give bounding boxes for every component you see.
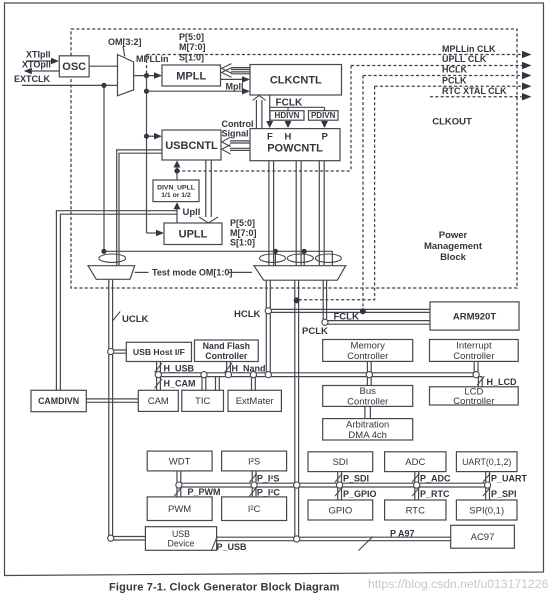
block ARM920T xyxy=(430,302,519,330)
svg-text:MPLLin CLK: MPLLin CLK xyxy=(442,44,496,54)
svg-text:HDIVN: HDIVN xyxy=(275,111,300,120)
wire net PMS ctrl shafts 1 xyxy=(231,68,250,70)
arrowhead RTC XTAL CLK xyxy=(522,93,532,101)
wire net UPLL CLK lower run (dashed) xyxy=(177,170,351,172)
block I2C xyxy=(222,497,287,521)
arrowhead PCLK out xyxy=(522,83,532,91)
block SPI xyxy=(456,500,517,520)
svg-text:Upll: Upll xyxy=(183,207,201,218)
arrowhead Upll into USBCNTL xyxy=(174,161,181,168)
mux test-mode UCLK xyxy=(88,266,135,280)
arrowhead Mpll into CLKCNTL xyxy=(242,76,250,83)
slash mark UART-SPI down slash xyxy=(483,487,490,496)
svg-text:POWCNTL: POWCNTL xyxy=(267,143,323,155)
svg-text:XTIpll: XTIpll xyxy=(26,50,51,60)
block GPIO xyxy=(308,500,373,520)
slash mark H_LCD slash xyxy=(477,376,484,385)
svg-text:P_SPI: P_SPI xyxy=(491,489,517,499)
wire net POWCNTL to CLKCNTL shafts xyxy=(256,100,262,129)
wire net FCLK branch xyxy=(270,107,325,110)
node WDT-PWM node xyxy=(176,482,182,488)
svg-text:PDIVN: PDIVN xyxy=(311,111,336,120)
svg-text:P_I²S: P_I²S xyxy=(257,473,280,483)
wire net OSC to mux xyxy=(89,65,117,67)
svg-text:DMA 4ch: DMA 4ch xyxy=(348,430,387,441)
wire net FCLK col xyxy=(323,280,326,321)
svg-text:PWM: PWM xyxy=(168,504,191,515)
svg-text:MPLL: MPLL xyxy=(176,70,206,82)
wire net UART-SPI up stub xyxy=(486,472,490,484)
svg-text:DIVN_UPLL: DIVN_UPLL xyxy=(157,184,195,191)
svg-text:Mpll: Mpll xyxy=(226,82,244,92)
arrowhead XTOpll out xyxy=(24,68,32,74)
wire net MPLLin to UPLL xyxy=(147,232,161,234)
wire net EXTCLK down xyxy=(103,85,105,251)
svg-text:P_USB: P_USB xyxy=(217,542,248,552)
svg-text:RTC XTAL CLK: RTC XTAL CLK xyxy=(442,86,507,96)
node TIC node xyxy=(201,372,207,378)
wire net UCLK run xyxy=(56,211,177,391)
wire net Upll up xyxy=(176,165,178,181)
svg-text:FCLK: FCLK xyxy=(334,312,359,323)
wire net to ARM lower xyxy=(328,321,431,325)
node SDI-GPIO node xyxy=(337,482,343,488)
svg-text:M[7:0]: M[7:0] xyxy=(179,42,206,52)
block CAMDIVN xyxy=(31,390,86,411)
node HCLK node xyxy=(265,308,271,314)
slash mark H_USB slash xyxy=(155,363,162,372)
wire net MPLLin vertical xyxy=(146,76,148,233)
svg-text:P_PWM: P_PWM xyxy=(188,487,221,497)
arrowhead H into POWCNTL xyxy=(285,121,292,128)
wire net UCLK to USB device xyxy=(114,537,146,541)
svg-text:ARM920T: ARM920T xyxy=(453,311,496,322)
svg-text:OM[3:2]: OM[3:2] xyxy=(108,37,142,47)
arrowhead HCLK out xyxy=(522,72,532,79)
svg-text:UART(0,1,2): UART(0,1,2) xyxy=(462,457,511,467)
svg-text:Signal: Signal xyxy=(222,128,249,138)
block CAM xyxy=(138,390,178,411)
svg-text:H_CAM: H_CAM xyxy=(164,379,196,389)
wire net PCLK col xyxy=(295,280,299,537)
wire net MPLLin to CLKCNTL xyxy=(147,90,247,92)
svg-text:WDT: WDT xyxy=(169,456,191,467)
junction EXTCLK branch xyxy=(101,83,106,88)
svg-text:Nand Flash: Nand Flash xyxy=(203,341,250,351)
svg-text:EXTCLK: EXTCLK xyxy=(14,74,51,84)
svg-text:Arbitration: Arbitration xyxy=(346,419,389,430)
mux test-mode FCLK HCLK PCLK xyxy=(254,266,346,281)
wire net ADC-RTC up stub xyxy=(415,472,419,484)
test-mode pass gate ellipse left xyxy=(99,254,126,262)
svg-text:PCLK: PCLK xyxy=(302,326,328,337)
svg-text:S[1:0]: S[1:0] xyxy=(179,53,204,63)
slash mark SDI-GPIO up slash xyxy=(335,473,342,482)
slash mark P_USB slash xyxy=(212,536,218,550)
svg-text:H_LCD: H_LCD xyxy=(487,377,518,387)
block LCD Controller xyxy=(430,387,519,408)
svg-text:H: H xyxy=(285,132,292,143)
wire net RTC XTAL CLK (dashed) xyxy=(430,96,522,98)
test-mode pass gate ellipse F xyxy=(260,254,286,262)
wire net HCLK bus xyxy=(158,373,482,377)
arrowhead into CLKCNTL lower xyxy=(242,88,250,95)
wire net POWCNTL P pair xyxy=(319,161,324,266)
block UART xyxy=(456,452,517,472)
svg-text:P_I²C: P_I²C xyxy=(257,488,281,498)
wire net Bus ctrl stub xyxy=(367,377,371,386)
wire net CAMDIVN to CAM xyxy=(86,399,138,402)
block UPLL xyxy=(164,223,222,245)
block HDIVN xyxy=(270,111,304,121)
wire net USBCNTL to UPLL shafts xyxy=(206,160,212,217)
open arrowhead ctrl USBCNTL 1 xyxy=(222,137,231,146)
svg-text:CLKOUT: CLKOUT xyxy=(432,117,472,128)
wire net UART-SPI down stub xyxy=(486,487,490,500)
wire net PDIVN out xyxy=(324,120,326,123)
wire net HDIVN out xyxy=(287,120,289,123)
wire net PMS ctrl shafts 2 xyxy=(231,72,250,74)
wire net test mode label left xyxy=(135,271,149,273)
svg-text:https://blog.csdn.net/u0131712: https://blog.csdn.net/u013171226 xyxy=(368,577,548,591)
block MPLL xyxy=(162,65,221,86)
block DIVN_UPLL xyxy=(153,180,199,202)
slash mark I2S-I2C down slash xyxy=(249,487,256,496)
svg-text:PCLK: PCLK xyxy=(442,75,467,85)
block ADC xyxy=(385,452,446,472)
block Bus Controller xyxy=(323,386,413,408)
wire net TIC stub 2 xyxy=(216,377,220,391)
svg-text:Controller: Controller xyxy=(205,351,248,361)
junction EXTCLK test branch xyxy=(101,249,106,254)
svg-text:HCLK: HCLK xyxy=(442,65,467,75)
wire net H_CAM stub xyxy=(157,377,161,391)
wire net PCLK out (dashed) xyxy=(375,85,522,87)
wire net UCLK to USB host xyxy=(114,350,127,353)
wire net XTOpll xyxy=(28,70,59,72)
wire net Mpll xyxy=(221,78,247,80)
wire net I2S-I2C down stub xyxy=(252,487,256,497)
svg-text:I²S: I²S xyxy=(248,456,260,467)
svg-text:RTC: RTC xyxy=(406,505,425,516)
block WDT xyxy=(147,451,212,471)
arrowhead MPLLin CLK xyxy=(522,51,532,58)
block USB Device xyxy=(145,527,216,551)
svg-text:Memory: Memory xyxy=(351,341,386,352)
wire net ExtMater stub xyxy=(252,377,256,391)
svg-text:H_USB: H_USB xyxy=(164,363,195,373)
arrowhead UPLL CLK xyxy=(522,62,532,69)
junction MPLLin junction xyxy=(144,73,149,78)
svg-text:Test mode OM[1:0]: Test mode OM[1:0] xyxy=(152,268,232,278)
wire net ctrl to USBCNTL shafts 2 xyxy=(230,148,250,150)
wire net Upll mid xyxy=(176,207,178,223)
svg-text:CLKCNTL: CLKCNTL xyxy=(270,75,322,87)
svg-text:M[7:0]: M[7:0] xyxy=(230,228,257,238)
slash mark UART-SPI up slash xyxy=(483,473,490,482)
svg-text:ExtMater: ExtMater xyxy=(236,396,274,407)
svg-text:UPLL: UPLL xyxy=(179,229,208,241)
svg-text:UPLL CLK: UPLL CLK xyxy=(442,54,487,64)
wire net P_A97 run xyxy=(300,537,451,541)
svg-text:HCLK: HCLK xyxy=(234,309,261,320)
wire net LCD drop xyxy=(478,373,482,387)
slash mark P_A97 slash xyxy=(359,537,373,551)
svg-text:AC97: AC97 xyxy=(471,532,495,543)
block Interrupt Controller xyxy=(430,340,519,363)
svg-text:SPI(0,1): SPI(0,1) xyxy=(469,505,504,516)
svg-text:Power: Power xyxy=(439,230,468,241)
svg-text:TIC: TIC xyxy=(195,396,210,407)
node PCLK bus join xyxy=(294,482,300,488)
svg-text:Bus: Bus xyxy=(360,386,377,397)
block USBCNTL xyxy=(162,130,221,160)
svg-text:I²C: I²C xyxy=(248,504,261,515)
arrowhead Upll into DIVN_UPLL xyxy=(174,202,181,209)
slash mark ADC-RTC down slash xyxy=(412,487,419,496)
wire net mux to MPLL xyxy=(134,75,159,77)
svg-text:CAM: CAM xyxy=(148,396,169,407)
svg-text:ADC: ADC xyxy=(405,457,425,468)
wire net POWCNTL F pair xyxy=(269,161,274,266)
wire net UPLL CLK (dashed) xyxy=(351,65,522,67)
wire net MPLLin CLK (dashed) xyxy=(147,54,522,56)
node Memory node xyxy=(366,372,372,378)
wire net PCLK bus xyxy=(179,483,490,487)
wire net H_Nand stub xyxy=(227,362,231,374)
slash mark ADC-RTC up slash xyxy=(412,473,419,482)
svg-text:P[5:0]: P[5:0] xyxy=(179,32,204,42)
node ExtMater node xyxy=(250,372,256,378)
svg-text:P A97: P A97 xyxy=(390,529,415,539)
slash mark WDT-PWM down slash xyxy=(174,487,181,496)
svg-text:P_RTC: P_RTC xyxy=(420,489,450,499)
svg-text:P: P xyxy=(322,132,329,143)
node H_USB node xyxy=(155,372,161,378)
wire net ctrl to USBCNTL shafts 1 xyxy=(230,141,250,143)
wire net MPLLin CLK tap (dashed) xyxy=(146,55,148,76)
node UCLK to USB host xyxy=(108,349,114,355)
svg-text:Device: Device xyxy=(168,538,195,548)
block AC97 xyxy=(451,525,515,548)
open arrowhead USBCNTL to UPLL xyxy=(199,217,218,223)
wire net SDI-GPIO up stub xyxy=(338,472,342,484)
junction MPLLin to USBCNTL xyxy=(144,134,149,139)
block Arbitration DMA xyxy=(323,419,413,441)
wire net to ARM upper xyxy=(271,309,430,312)
block USB Host I/F xyxy=(126,342,191,361)
wire net SDI-GPIO down stub xyxy=(338,487,342,500)
svg-text:1/1 or 1/2: 1/1 or 1/2 xyxy=(161,192,191,199)
test-mode pass gate ellipse P xyxy=(315,254,341,262)
junction test tap 2 xyxy=(302,249,307,254)
svg-text:P_ADC: P_ADC xyxy=(420,473,451,483)
svg-text:P_UART: P_UART xyxy=(491,473,528,483)
arrowhead P into POWCNTL xyxy=(321,121,328,128)
svg-text:Figure 7-1. Clock Generator Bl: Figure 7-1. Clock Generator Block Diagra… xyxy=(109,582,340,594)
block OSC xyxy=(59,56,89,77)
wire net HCLK col xyxy=(266,280,270,373)
svg-text:Block: Block xyxy=(440,252,467,263)
svg-text:H_Nand: H_Nand xyxy=(232,363,266,373)
wire net XTIpll xyxy=(26,60,56,62)
slash mark SDI-GPIO down slash xyxy=(335,487,342,496)
wire net UCLK col xyxy=(109,279,113,536)
open arrowhead PMS ctrl 2 xyxy=(222,68,232,78)
node FCLK node xyxy=(322,319,328,325)
wire net HCLK out (dashed) xyxy=(363,75,522,77)
arrowhead F into POWCNTL xyxy=(266,121,273,128)
arrowhead into MPLL xyxy=(154,72,162,79)
wire net WDT-PWM up stub xyxy=(177,471,181,483)
wire net test mode label right xyxy=(229,271,252,273)
junction MPLLin to CLKCNTL xyxy=(144,89,149,94)
wire net USBCNTL left pair xyxy=(117,150,162,266)
block SDI xyxy=(308,452,373,472)
slash mark H_CAM slash xyxy=(155,379,162,388)
svg-text:UCLK: UCLK xyxy=(122,314,149,325)
wire net Arbitration stub xyxy=(365,406,371,418)
block I2S xyxy=(222,451,287,471)
slash mark I2S-I2C up slash xyxy=(249,473,256,482)
wire net PCLK tap (dashed) xyxy=(299,86,375,299)
node UCLK to USB device xyxy=(108,535,114,541)
block PDIVN xyxy=(309,111,339,121)
wire net Memory stub xyxy=(367,361,371,373)
svg-text:OSC: OSC xyxy=(62,61,86,73)
wire net HCLK tap (dashed) xyxy=(362,76,364,310)
svg-text:USBCNTL: USBCNTL xyxy=(165,140,218,152)
svg-text:Controller: Controller xyxy=(347,397,388,408)
junction Upll tap xyxy=(174,168,179,173)
svg-text:USB: USB xyxy=(172,529,190,539)
svg-text:Controller: Controller xyxy=(453,351,494,362)
wire net I2S-I2C up stub xyxy=(252,471,256,483)
node Interrupt node xyxy=(473,372,479,378)
svg-text:XTOpll: XTOpll xyxy=(22,59,51,69)
block PWM xyxy=(147,497,212,521)
node P_A97 node xyxy=(294,536,300,542)
block Nand Flash Controller xyxy=(195,340,259,362)
svg-text:P_SDI: P_SDI xyxy=(343,473,369,483)
wire net ADC-RTC down stub xyxy=(415,487,419,500)
wire net H_USB stub xyxy=(157,362,161,374)
block TIC xyxy=(182,390,224,411)
mux OM[3:2] clock source select xyxy=(118,55,134,96)
Power Management Block dashed boundary xyxy=(71,29,517,288)
wire net UPLL CLK tap (dashed) xyxy=(350,66,352,172)
node H_Nand node xyxy=(225,372,231,378)
open arrowhead PMS ctrl 1 xyxy=(222,64,232,74)
wire net EXTCLK xyxy=(22,84,118,86)
block CLKCNTL xyxy=(250,65,342,96)
open arrowhead ctrl USBCNTL 2 xyxy=(222,145,231,154)
svg-text:SDI: SDI xyxy=(332,457,348,468)
slash mark UCLK slash xyxy=(113,312,120,321)
wire net OM select xyxy=(123,47,125,57)
arrowhead XTIpll into OSC xyxy=(51,58,59,64)
svg-text:P[5:0]: P[5:0] xyxy=(230,218,255,228)
svg-text:GPIO: GPIO xyxy=(329,505,353,516)
arrowhead into UPLL xyxy=(156,230,164,236)
block Memory Controller xyxy=(323,340,413,363)
block RTC xyxy=(385,500,446,520)
node ADC-RTC node xyxy=(414,482,420,488)
wire net Interrupt stub xyxy=(474,361,478,373)
wire net POWCNTL H pair xyxy=(296,161,301,266)
node UART-SPI node xyxy=(485,482,491,488)
block ExtMater xyxy=(228,390,281,411)
svg-text:MPLLin: MPLLin xyxy=(136,54,169,64)
svg-text:CAMDIVN: CAMDIVN xyxy=(38,396,79,406)
open arrowhead POWCNTL to CLKCNTL xyxy=(253,95,266,100)
block POWCNTL xyxy=(250,129,340,161)
node HCLK col join xyxy=(265,372,271,378)
arrowhead into USBCNTL xyxy=(154,133,162,140)
svg-text:P_GPIO: P_GPIO xyxy=(343,489,377,499)
wire net FCLK to POWCNTL xyxy=(269,95,271,123)
junction HCLK dashed tap xyxy=(360,308,366,314)
wire net MPLLin to USBCNTL xyxy=(147,135,159,137)
wire net P_USB run xyxy=(217,537,294,541)
svg-text:Interrupt: Interrupt xyxy=(456,341,492,352)
test-mode pass gate ellipse H xyxy=(287,254,313,262)
svg-text:Control: Control xyxy=(222,119,254,129)
node I2S-I2C node xyxy=(251,482,257,488)
svg-text:F: F xyxy=(267,132,273,143)
svg-text:S[1:0]: S[1:0] xyxy=(230,238,255,248)
svg-text:USB Host I/F: USB Host I/F xyxy=(133,347,185,357)
wire net WDT-PWM down stub xyxy=(177,487,181,497)
svg-text:Management: Management xyxy=(424,241,483,252)
wire net TIC stub xyxy=(202,377,206,391)
junction test tap 1 xyxy=(273,249,278,254)
wire net EXTCLK test run xyxy=(104,251,332,266)
svg-text:Controller: Controller xyxy=(347,351,388,362)
svg-text:Controller: Controller xyxy=(453,396,494,407)
slash mark H_Nand slash xyxy=(225,363,232,372)
junction PCLK dashed tap xyxy=(294,297,300,303)
